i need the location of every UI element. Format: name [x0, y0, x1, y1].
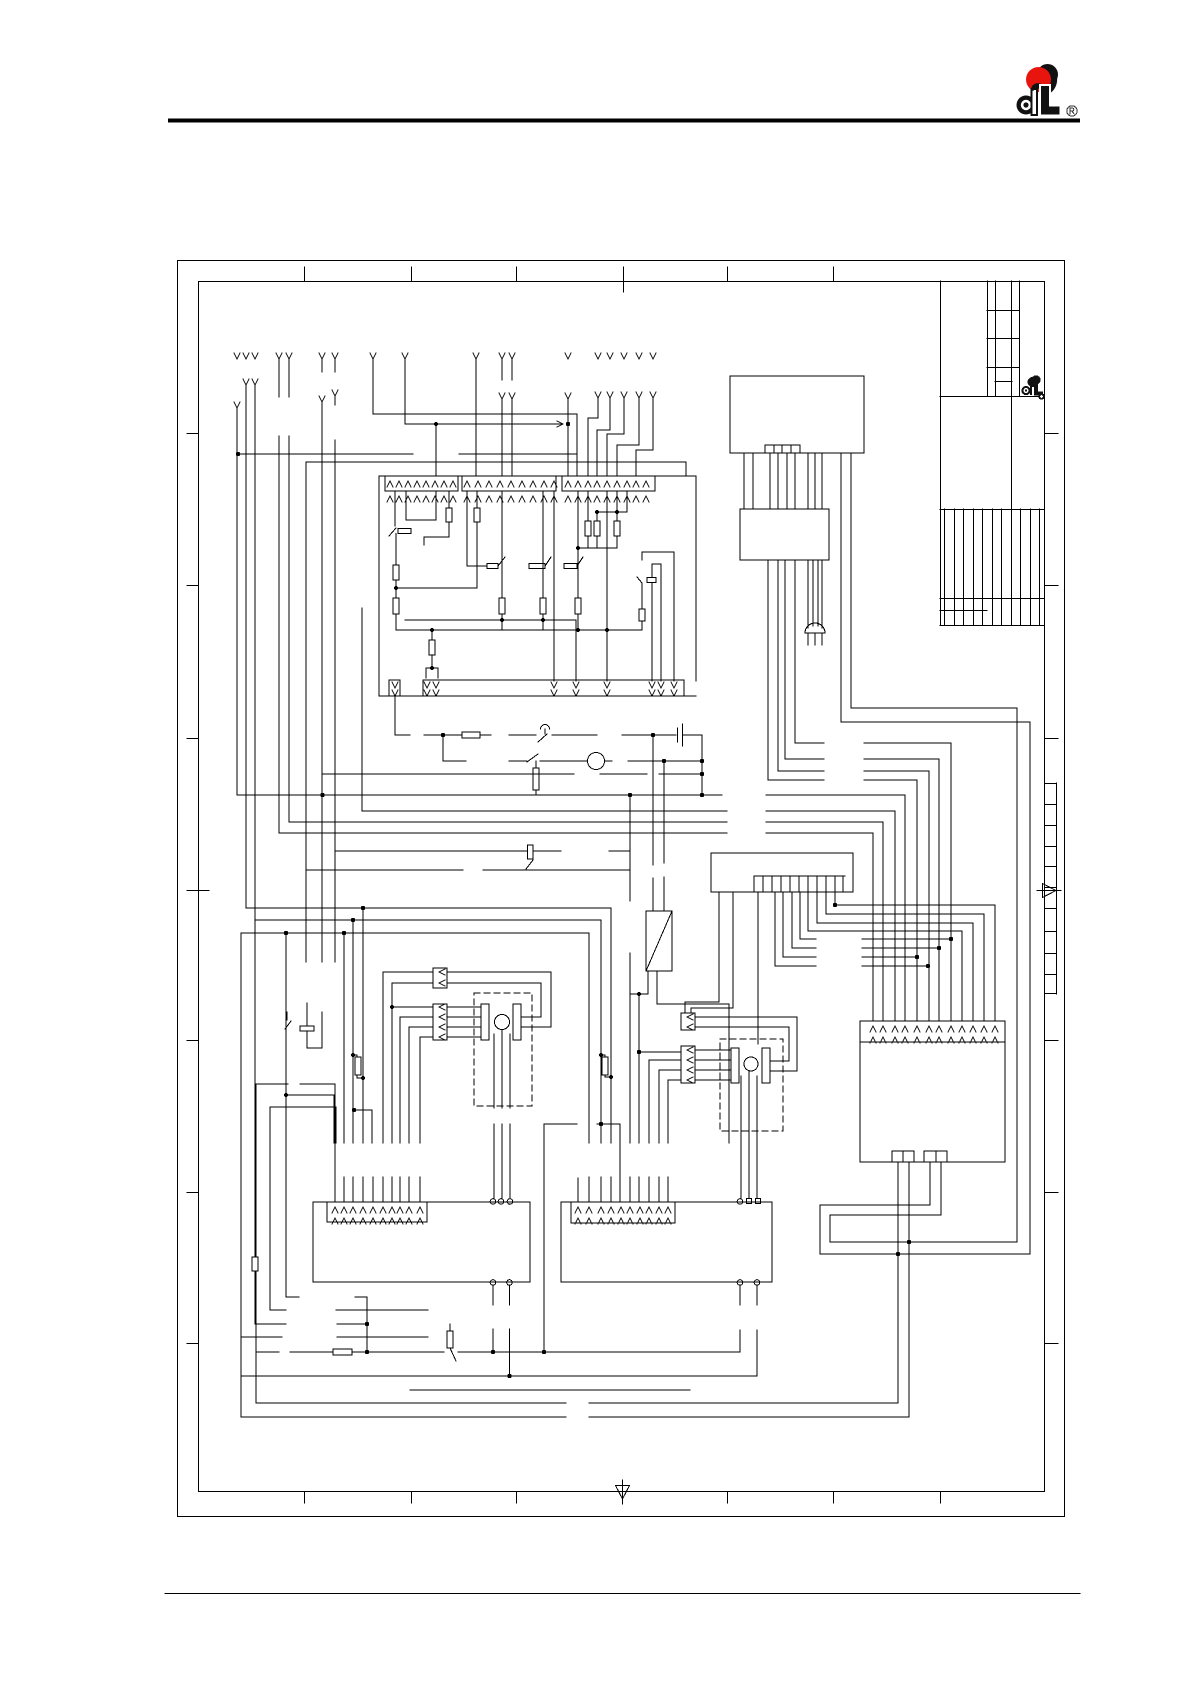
node J493-1352 — [491, 1350, 495, 1354]
Q1 left plate — [481, 1004, 489, 1040]
wire W246 — [245, 385, 247, 908]
node J238 — [236, 452, 240, 456]
wire net424 with arrowhead — [405, 423, 561, 425]
bus y833 — [279, 833, 873, 1021]
header rule — [170, 119, 1078, 123]
wire W601 — [600, 920, 602, 1202]
bus y908 — [246, 907, 611, 909]
transistor Q2 — [744, 1057, 758, 1071]
bus y1417 — [241, 1416, 909, 1418]
node J639-1052 — [637, 1050, 641, 1054]
wire W322 — [321, 359, 323, 962]
wire pin feed 436 — [435, 424, 437, 476]
transistor Q1 — [495, 1015, 510, 1030]
switch SW2 — [545, 557, 551, 566]
outer drawing border — [178, 261, 1065, 1517]
box4 bottom wires — [898, 1162, 941, 1417]
wire W502 — [501, 359, 503, 476]
wires B to Q1 — [447, 1007, 481, 1037]
bus y822 — [289, 822, 883, 1021]
node J367-1324 — [365, 1322, 369, 1326]
bottom pin box main — [379, 680, 696, 696]
FFC connector box — [740, 509, 829, 560]
wires below K1 — [630, 971, 729, 1143]
node J353-1055 — [351, 1053, 355, 1057]
node J354-1110 — [352, 1108, 356, 1112]
connector arrows row 2 (harness heads with tails) — [234, 379, 656, 408]
module U2 — [730, 376, 864, 453]
wire W335 — [334, 359, 336, 962]
node J610-1077 — [609, 1075, 613, 1079]
switch SW0 with fuse — [389, 528, 396, 536]
wire W289 — [288, 359, 290, 822]
wire cap-n to pins — [426, 668, 438, 678]
wire W362 — [361, 608, 363, 811]
relay output wire to Q2 — [757, 892, 759, 1044]
switch SW6 with resistor — [447, 1331, 453, 1348]
wire net462 — [306, 462, 686, 476]
d letter ring — [1017, 96, 1036, 115]
splice dome — [805, 623, 825, 633]
resistor R536 — [535, 761, 537, 795]
node J544-1352 — [542, 1350, 546, 1354]
company logo — [1017, 64, 1061, 116]
staircase y1107 — [270, 1107, 336, 1143]
wires around SW5 — [307, 1003, 322, 1048]
box2 top terminals — [737, 1199, 743, 1205]
node J286-1095 — [284, 1093, 288, 1097]
wire W578 — [577, 491, 579, 598]
wire pin436 down — [435, 491, 437, 520]
Q2 right plate — [762, 1048, 770, 1083]
node J392-1007 — [390, 1005, 394, 1009]
node J367-1352 — [365, 1350, 369, 1354]
inner loop — [652, 564, 661, 681]
relay contact block right — [642, 552, 674, 681]
bus y1403 — [256, 1402, 898, 1404]
switch SW1 — [467, 491, 505, 566]
wire W607 long — [606, 491, 608, 681]
wire W405 — [404, 359, 406, 424]
switch SW4 — [527, 754, 538, 762]
bus y1352 — [256, 1351, 740, 1353]
node J363-908 — [361, 906, 365, 910]
connector segment S1 — [385, 476, 458, 491]
staircase y1095 — [286, 1095, 373, 1202]
small logo in title block — [1021, 375, 1044, 399]
node J509-1376 — [507, 1374, 511, 1378]
footer rule — [165, 1593, 1080, 1595]
d letter stem — [1031, 88, 1039, 116]
bus y914 — [826, 892, 984, 1021]
box3 left pin wires — [685, 892, 733, 1013]
wire net620 — [405, 620, 576, 681]
border zone ticks right — [1045, 434, 1058, 1344]
splice dome wires — [808, 560, 822, 628]
resistor R502 — [499, 598, 505, 614]
node J898-1254 — [896, 1252, 900, 1256]
wire W554 — [553, 491, 555, 681]
resistor RL1 — [393, 565, 399, 580]
wire W306 — [305, 462, 307, 962]
wire W610 jog — [597, 399, 610, 476]
resistor R642 — [641, 583, 643, 630]
wire W237 — [236, 408, 238, 795]
resistor R255 — [252, 1257, 258, 1271]
wires below FFC — [768, 560, 951, 780]
node J286-933 — [284, 931, 288, 935]
wires below box2 — [740, 1285, 757, 1376]
box3 pin comb — [754, 875, 845, 877]
bus y1310 — [270, 1309, 428, 1311]
title block bottom table — [940, 625, 1044, 627]
block outline — [379, 476, 696, 696]
Q1 heatsink dashed box — [474, 993, 532, 1106]
opto box K1 — [646, 911, 672, 971]
wire net548 — [578, 547, 617, 549]
right border fold arrow — [1037, 884, 1061, 898]
bottom border fold arrow — [616, 1480, 630, 1504]
bus y923 — [817, 892, 973, 1021]
wire W624 jog — [607, 399, 624, 476]
wire net588 — [396, 587, 477, 589]
node J363-1078 — [361, 1076, 365, 1080]
Q2 heatsink dashed box — [720, 1039, 783, 1131]
node J909-1242 — [907, 1240, 911, 1244]
wire row761 — [443, 735, 702, 761]
resistor R530 on bus — [528, 845, 534, 859]
connector segment S2 — [462, 476, 556, 491]
bus y948 — [792, 892, 939, 948]
connector segment S3 — [562, 476, 655, 491]
wire net454 — [238, 453, 577, 455]
resistor R477 — [476, 491, 478, 588]
node J617-512 — [615, 510, 619, 514]
d hook — [1031, 83, 1043, 91]
wire W668 — [668, 1080, 681, 1202]
node J835-905 — [833, 903, 837, 907]
wire W502c — [501, 491, 503, 598]
wire W598 jog — [588, 399, 598, 476]
box2 bottom terminals — [737, 1280, 743, 1286]
connector box C — [681, 1013, 695, 1030]
bus y1337 — [241, 1336, 428, 1338]
bus y1297 — [286, 1297, 367, 1352]
node J568 — [566, 422, 570, 426]
pushbutton SW-PB — [538, 725, 550, 743]
node J578-630 — [576, 628, 580, 632]
resistor R432 — [431, 630, 433, 668]
connector arrows row 1 (harness heads) — [234, 353, 656, 359]
U2 bottom pin comb — [765, 445, 800, 453]
bus y933 — [241, 932, 589, 934]
node J436 — [434, 422, 438, 426]
resistor R543 — [540, 598, 546, 614]
wires C wrap to Q2 collector — [695, 1017, 797, 1071]
bus y931 — [808, 892, 962, 1021]
bus y1324 — [255, 1323, 367, 1325]
box2 pin strip — [571, 1202, 675, 1223]
wire R-chain left column — [395, 534, 397, 631]
wire pin406 — [406, 491, 436, 520]
wire W639 jog — [617, 399, 639, 476]
border zone ticks bottom — [305, 1492, 941, 1503]
wire net630 — [396, 629, 642, 631]
node J917-957 — [915, 955, 919, 959]
switch blade SW7 — [526, 860, 533, 869]
node J702-774 — [700, 772, 704, 776]
box1 top terminals — [490, 1199, 496, 1205]
node J443-735 — [441, 733, 445, 737]
box1 pin feed verticals — [344, 908, 363, 1202]
wire W649 — [649, 1060, 681, 1202]
node J432-668 — [430, 666, 434, 670]
resistor R449 — [424, 491, 449, 545]
wire W659 — [659, 1070, 681, 1202]
wire net414 — [373, 414, 577, 476]
wire W544 — [543, 1124, 545, 1352]
wire W241 — [240, 933, 242, 1417]
wire W653 — [652, 735, 654, 911]
node J607-630 — [605, 628, 609, 632]
node J630-795 — [628, 793, 632, 797]
bypass loop 2 — [830, 453, 1017, 1242]
wire W255 — [254, 385, 256, 1324]
wire W610 — [610, 908, 612, 1202]
bus y795 — [238, 795, 905, 1021]
resistor R353 bridge — [355, 1057, 361, 1075]
red ball — [1026, 67, 1051, 92]
node J939-948 — [937, 946, 941, 950]
wire W256 — [255, 1084, 257, 1403]
wire pin395 down — [394, 491, 396, 526]
wires D to Q2 — [695, 1050, 731, 1080]
box2 pin stubs — [578, 933, 589, 1202]
wire W630 — [629, 795, 631, 1202]
bus y966 — [775, 892, 928, 966]
bottom pin box small — [389, 680, 400, 696]
wire net1124 — [544, 1124, 620, 1202]
connector box A — [433, 968, 447, 988]
connector box D — [681, 1046, 695, 1083]
branch to box1 pin 373 — [354, 1110, 372, 1143]
wire blade drop — [286, 1012, 288, 1020]
border zone ticks left — [187, 434, 209, 1344]
box4 bottom terminal blocks — [892, 1151, 903, 1162]
wires U2 to FFC — [744, 453, 822, 509]
node J344-933 — [342, 931, 346, 935]
black ball — [1037, 64, 1058, 85]
wire row774 — [322, 773, 702, 775]
node J601-1055 — [599, 1053, 603, 1057]
Q2 emitter wires — [741, 1071, 757, 1198]
node JL588 — [394, 586, 398, 590]
switch SW5 — [285, 1021, 291, 1029]
staircase y1084 — [256, 1084, 335, 1202]
border zone ticks top — [305, 267, 834, 292]
node J322-795 — [320, 793, 324, 797]
node J928-966 — [926, 964, 930, 968]
node J543-620 — [541, 618, 545, 622]
lamp LP1 — [588, 753, 605, 770]
node J653-735 — [651, 733, 655, 737]
inner drawing border — [199, 282, 1045, 1492]
box1 pin strip — [327, 1202, 427, 1222]
bus y870 — [306, 869, 630, 871]
Q1 emitter wires — [494, 1030, 510, 1198]
resistor R588 — [587, 491, 589, 548]
feeds A/B — [383, 972, 433, 1202]
capacitor C1 — [678, 724, 703, 746]
resistor R597 — [597, 491, 627, 548]
box1 bottom terminals — [490, 1280, 496, 1286]
bus y905 — [835, 892, 995, 1021]
connector box B — [433, 1004, 447, 1040]
fuse F1 — [462, 732, 480, 738]
FFC drop wires — [917, 743, 951, 1021]
node J639-994 — [637, 992, 641, 996]
node J601-1124 — [599, 1122, 603, 1126]
node J702-795 — [700, 793, 704, 797]
switch SW3 — [577, 557, 583, 566]
resistor RL2 — [393, 598, 399, 614]
Q2 left plate — [731, 1048, 739, 1083]
wires A wrap to Q1 collector — [447, 972, 551, 1027]
Q1 right plate — [513, 1004, 521, 1040]
node J432-630 — [430, 628, 434, 632]
bus y920 — [255, 919, 601, 921]
bus y851 — [335, 850, 630, 852]
wire W702 — [701, 735, 703, 795]
bus y939 — [800, 892, 951, 939]
bus y957 — [783, 892, 917, 957]
wire W512 — [511, 359, 513, 476]
L letter — [1040, 85, 1061, 116]
wire W568 — [567, 399, 569, 476]
resistor R601 — [602, 1057, 608, 1075]
title block — [940, 281, 1045, 626]
wire W639 — [638, 994, 640, 1202]
wire W286b — [285, 933, 287, 1297]
node J597-512 — [595, 510, 599, 514]
resistor R617 — [616, 491, 618, 548]
wire W373 — [372, 359, 374, 414]
wire W476 — [475, 359, 477, 476]
fuse F2 — [333, 1349, 352, 1355]
resistor R578 — [575, 598, 581, 614]
bypass loop 1 — [820, 453, 1030, 1254]
bus y811 — [362, 811, 895, 1021]
bus y1376 — [241, 1375, 757, 1377]
wire W664 — [663, 761, 665, 911]
node J502-620 — [500, 618, 504, 622]
wire row735 — [395, 696, 676, 735]
wire W270 — [269, 1107, 271, 1310]
node J353-920 — [351, 918, 355, 922]
wire W279 — [278, 359, 280, 833]
node J664-761 — [662, 759, 666, 763]
wire W653 jog — [636, 399, 653, 476]
node J951-939 — [949, 937, 953, 941]
wires below box1 — [493, 1285, 510, 1376]
wire W543 — [542, 491, 544, 598]
bus y1390 — [410, 1389, 690, 1391]
registered mark — [1067, 106, 1077, 116]
node J702-761 — [700, 759, 704, 763]
node J578-548 — [576, 546, 580, 550]
